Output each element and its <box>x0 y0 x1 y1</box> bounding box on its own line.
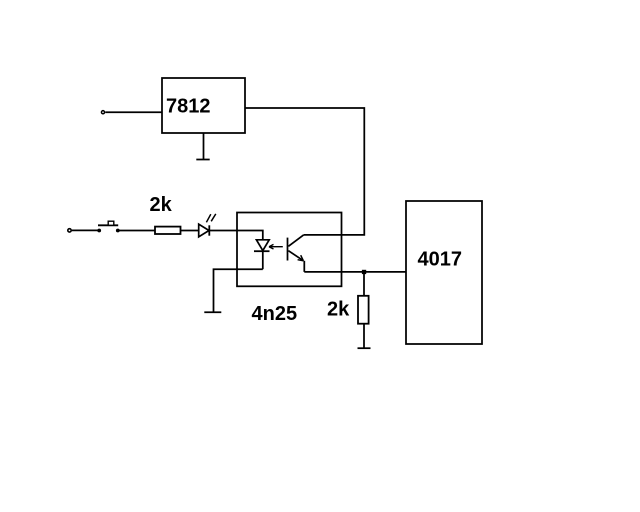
terminal J1 (7812 input) <box>101 111 104 114</box>
terminal J2 (main input) <box>68 229 71 232</box>
wire R1 to D1 <box>181 230 199 232</box>
wire Q1 emitter to U3 <box>304 271 406 273</box>
wire J1 to U1 <box>105 111 162 113</box>
wire D2 cathode to ground <box>214 269 263 312</box>
svg-text:4017: 4017 <box>418 249 463 271</box>
svg-text:2k: 2k <box>150 194 173 216</box>
ground (R2) <box>358 347 371 349</box>
wire U1 output to Q1 collector <box>245 108 364 235</box>
regulator U1 7812 box <box>162 78 245 133</box>
phototransistor Q1 <box>288 235 305 272</box>
ground (below U1) <box>196 133 209 160</box>
svg-text:7812: 7812 <box>166 96 211 118</box>
optocoupler U2 box <box>237 213 342 287</box>
wire R2 to ground <box>363 324 365 349</box>
ground (opto LED) <box>204 311 221 313</box>
wire D1 to U2 <box>209 230 237 232</box>
IC U3 4017 box <box>406 201 482 344</box>
wire J2 to S1 <box>72 229 98 231</box>
wire S1 to R1 <box>118 230 155 232</box>
LED D1 <box>199 214 216 237</box>
svg-text:2k: 2k <box>327 299 350 321</box>
svg-text:4n25: 4n25 <box>252 303 298 325</box>
resistor R1 <box>155 227 181 234</box>
light arrow <box>269 244 283 249</box>
resistor R2 <box>358 296 369 324</box>
node junction <box>362 270 366 274</box>
wire node to R2 <box>363 272 365 296</box>
opto LED D2 <box>237 231 270 270</box>
pushbutton S1 <box>97 221 119 232</box>
